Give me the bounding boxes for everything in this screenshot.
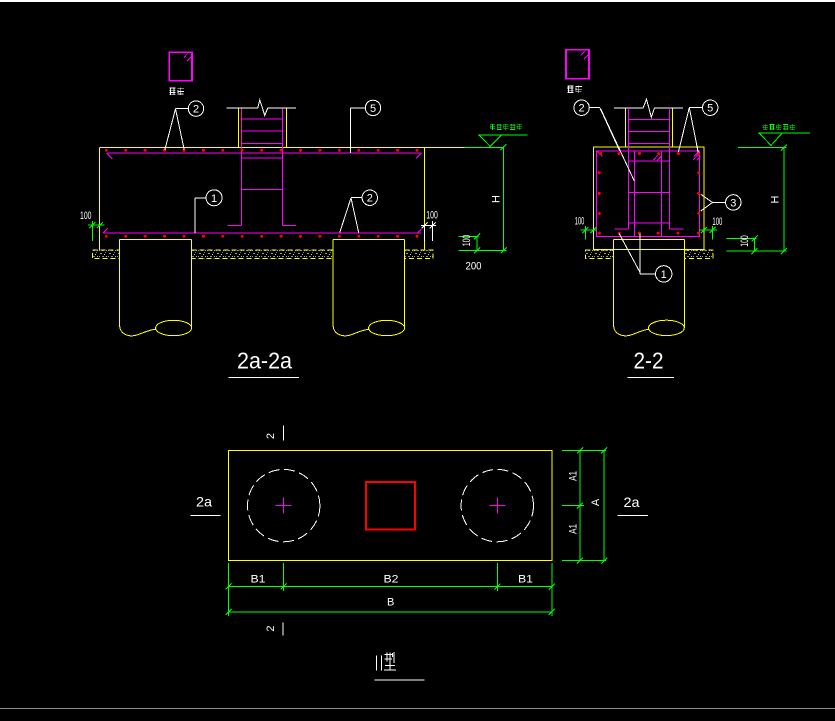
svg-text:B: B — [387, 597, 394, 609]
svg-text:A1: A1 — [568, 524, 580, 534]
title underline 2-2 — [627, 376, 674, 378]
cushion strip segment left (view1) — [92, 250, 119, 259]
callout circle 5 (view2) — [678, 100, 718, 153]
rebar dots (view2 right column) — [697, 153, 700, 215]
svg-text:1: 1 — [661, 269, 667, 281]
svg-text:100: 100 — [426, 209, 438, 221]
svg-text:100: 100 — [575, 215, 585, 227]
title underline II型 — [375, 679, 425, 681]
small 100 dimension (view1 bottom right) — [458, 234, 480, 254]
rebar cage rectangle (view2) — [597, 151, 700, 237]
svg-text:2: 2 — [367, 193, 373, 205]
column top break line (view2) — [614, 99, 683, 117]
svg-text:5: 5 — [707, 103, 713, 115]
right 100 dimension (view2) — [700, 226, 717, 240]
cap top extension line (view2) — [738, 147, 787, 149]
left 100 dimension (view1) — [88, 221, 104, 241]
svg-text:2: 2 — [265, 625, 277, 631]
svg-text:H: H — [491, 195, 503, 203]
svg-text:100: 100 — [712, 216, 722, 228]
svg-text:2a: 2a — [624, 494, 640, 510]
column bar bottom hooks — [228, 224, 297, 226]
pile 2 center cross — [489, 498, 505, 514]
elevation text (view2) — [763, 124, 796, 130]
svg-text:H: H — [770, 195, 782, 203]
stirrup symbol square (view1) — [169, 52, 192, 81]
svg-text:A: A — [590, 498, 602, 506]
cushion strip segment right (view1) — [405, 250, 434, 259]
column red square — [366, 482, 415, 530]
section cut mark 2 (top) — [283, 426, 285, 441]
elevation text (view1) — [490, 124, 522, 130]
inner bars (view2) — [635, 151, 662, 237]
cushion strip segment middle (view1) — [192, 250, 334, 259]
rebar dots bottom row (view1) — [105, 235, 419, 238]
cage corner/lap hooks (view2) — [597, 151, 700, 160]
svg-text:2a: 2a — [196, 494, 212, 510]
left 100 dimension (view2) — [581, 226, 597, 240]
pile cap top line (yellow, view1) — [100, 146, 465, 148]
pile cap plan rectangle — [229, 450, 552, 560]
pile 1 (view1) — [120, 239, 192, 336]
label 箍筋 (view1) — [169, 88, 184, 95]
small 100 dimension (view2 bottom right) — [727, 235, 758, 254]
callout circle 2 (bottom right, view1) — [340, 190, 378, 233]
svg-text:3: 3 — [730, 197, 736, 209]
column bar bottom hooks (view2) — [614, 228, 683, 230]
A dimension line — [603, 450, 605, 560]
callout circle 2 (top left, view1) — [165, 101, 204, 150]
pile 2 (view1) — [333, 239, 404, 336]
callout circle 1 (view2) — [619, 234, 672, 282]
callout circle 5 (view1) — [351, 100, 381, 153]
H dimension line (view2) — [727, 145, 787, 255]
bottom rebar (magenta) with end hooks — [103, 228, 421, 233]
svg-text:200: 200 — [466, 261, 482, 273]
svg-text:2: 2 — [579, 103, 585, 115]
svg-text:2: 2 — [265, 433, 277, 439]
elevation symbol 承台面标高 (view1) — [478, 135, 528, 146]
pile (view2) — [614, 240, 685, 336]
column outline above cap (yellow) — [238, 109, 286, 147]
column vertical bars (magenta) — [241, 108, 282, 225]
callout circle 3 (view2) — [701, 194, 741, 211]
B1 B2 B1 dimension line — [229, 586, 552, 588]
A1/A1 dimension line — [579, 450, 581, 560]
pile 1 dashed circle — [248, 469, 320, 541]
bottom dimension extension lines — [226, 563, 555, 616]
column vertical bars (view2) — [629, 108, 670, 229]
svg-text:100: 100 — [80, 210, 92, 222]
cushion strip right (view2) — [684, 250, 713, 259]
pile 1 center cross — [276, 498, 292, 514]
stirrup hook ticks (view1) — [184, 53, 192, 61]
pile cap right edge — [424, 147, 426, 250]
svg-text:2-2: 2-2 — [634, 348, 664, 374]
right 100 dimension (view1, white) — [421, 221, 436, 241]
cap top extension line (green, view1) — [465, 146, 504, 148]
cushion strip left (view2) — [586, 250, 614, 259]
stirrup symbol square (view2) — [566, 50, 589, 79]
rebar dots (view2 bottom row) — [598, 232, 700, 235]
pile cap left edge — [99, 147, 101, 250]
callout circle 2 (view2) — [574, 100, 634, 181]
top rebar (magenta) with end hooks — [107, 153, 422, 159]
pile cap outline (view2) — [593, 147, 704, 250]
title underline 2a-2a — [228, 376, 298, 378]
svg-text:2a-2a: 2a-2a — [237, 348, 292, 374]
title II型 — [377, 652, 397, 671]
svg-text:B2: B2 — [384, 574, 399, 586]
elevation symbol 承台面标高 (view2) — [758, 133, 810, 146]
rebar dots (view2 top row) — [599, 152, 680, 155]
right dimension extension lines — [562, 447, 607, 563]
svg-text:5: 5 — [370, 103, 376, 115]
section cut mark 2 (bottom) — [282, 622, 284, 635]
stirrup hook ticks (view2) — [581, 51, 589, 59]
label 箍筋 (view2) — [567, 86, 582, 93]
column top break line (white) — [226, 100, 296, 116]
pile 2 dashed circle — [461, 469, 533, 541]
rebar dots top row (view1) — [105, 149, 419, 152]
H dimension line (view1) — [458, 144, 506, 253]
svg-text:B1: B1 — [251, 574, 266, 586]
bottom separator line — [0, 708, 835, 709]
svg-text:A1: A1 — [568, 471, 580, 481]
svg-text:100: 100 — [739, 235, 751, 247]
svg-text:1: 1 — [211, 193, 217, 205]
svg-text:100: 100 — [461, 235, 473, 247]
column stirrup rungs (view2) — [629, 120, 670, 224]
top frame line — [0, 0, 835, 2]
callout circle 1 (view1) — [195, 190, 222, 233]
rebar dots (view2 left column) — [598, 171, 601, 215]
B dimension line — [229, 611, 552, 613]
svg-text:B1: B1 — [518, 574, 533, 586]
column outline above cap (view2) — [625, 109, 672, 147]
column stirrup rungs — [241, 119, 282, 189]
svg-text:2: 2 — [193, 104, 199, 116]
